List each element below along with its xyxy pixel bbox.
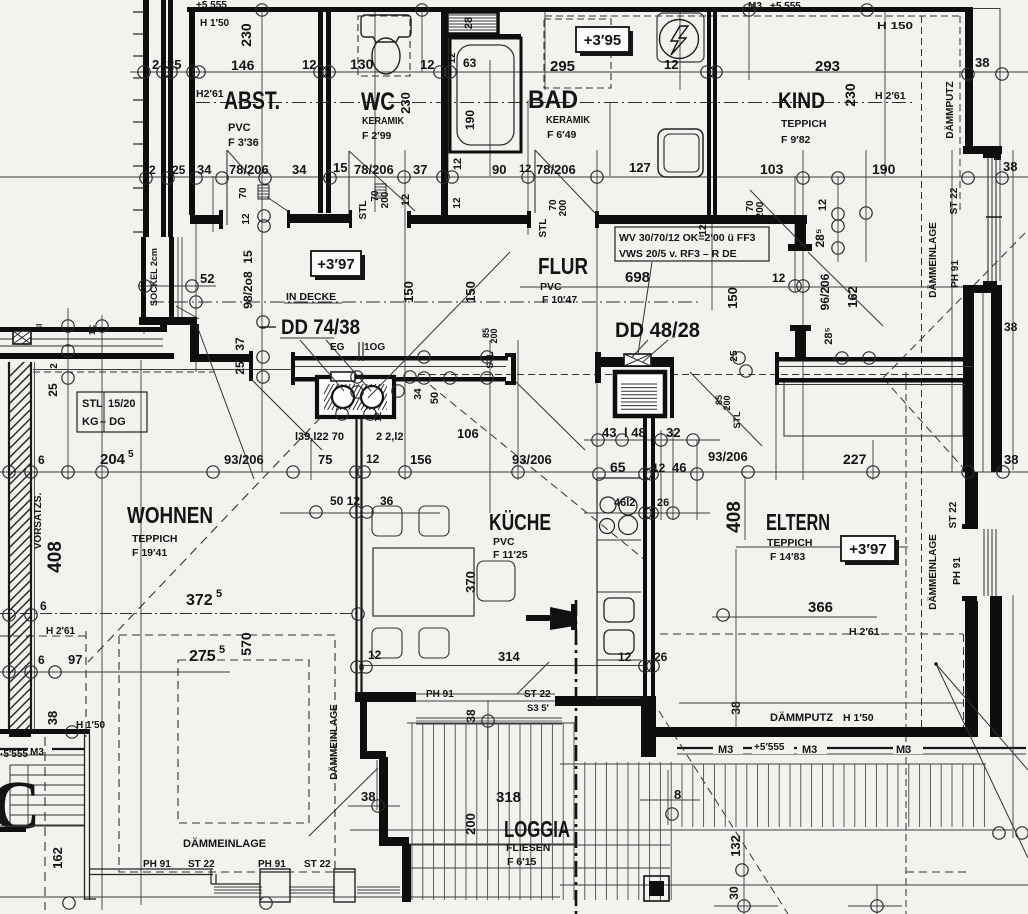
stairs lower edge wall [0,827,26,832]
svg-text:12: 12 [420,57,434,72]
svg-text:F 2′99: F 2′99 [362,130,392,142]
dd48 duct hatch [621,384,657,409]
svg-text:2 2,l2: 2 2,l2 [376,431,404,443]
flur 698 dim line y287 [520,286,963,288]
corridor north stub left [190,215,220,224]
svg-text:WV 30/70/12 OK=2′00 ü FF3: WV 30/70/12 OK=2′00 ü FF3 [619,232,756,244]
corridor north wall wc piece [287,214,352,223]
svg-text:ST 22: ST 22 [304,859,331,870]
svg-text:H 1′50: H 1′50 [843,712,874,724]
svg-text:26: 26 [657,497,669,509]
svg-text:DÄMMEINLAGE: DÄMMEINLAGE [183,837,266,850]
stairs bottom-left [10,765,84,825]
kueche dim line y665 [362,665,643,667]
svg-text:698: 698 [625,269,650,286]
svg-text:200: 200 [558,199,569,216]
svg-text:96/206: 96/206 [818,273,832,310]
svg-text:295: 295 [550,58,575,75]
bad toilet [658,129,703,177]
svg-text:200: 200 [722,395,732,410]
svg-text:+3′95: +3′95 [584,32,621,49]
left outer wall line1 [143,0,149,237]
svg-text:5: 5 [219,644,225,656]
level marker +3&#8242;95 [580,31,633,56]
wc-bath partition [441,12,448,215]
svg-text:VORSATZS.: VORSATZS. [33,493,44,550]
svg-text:12: 12 [772,271,786,285]
loggia top line y765 [560,763,986,765]
dashed wc fixture box [358,16,410,76]
kueche dim line y513 [280,512,440,514]
svg-text:12: 12 [664,57,678,72]
svg-text:STL: STL [732,411,742,429]
svg-text:38: 38 [975,55,989,70]
svg-text:127: 127 [629,160,651,175]
electrical symbol circle [660,20,699,59]
window pillar south a [260,869,290,902]
eltern north wall top face [777,357,973,362]
svg-text:STL: STL [358,201,369,220]
svg-text:PH 91: PH 91 [426,689,454,700]
svg-text:M3: M3 [718,744,733,756]
svg-text:1OG: 1OG [364,342,385,353]
kind door swing leader 96-206 [750,190,806,248]
duct dim line y440 [584,439,720,441]
dashed eltern SE corner vertical [963,634,965,734]
duct74 damper box [331,372,355,381]
svg-text:93/206: 93/206 [512,452,552,467]
svg-text:l39,l22 70: l39,l22 70 [295,431,344,443]
left outer wall line3 [168,0,173,237]
svg-text:106: 106 [457,426,479,441]
svg-text:25: 25 [46,383,60,397]
svg-text:12: 12 [452,158,464,170]
svg-text:156: 156 [410,452,432,467]
dashed bad level box [544,19,611,88]
svg-text:5: 5 [128,449,134,460]
flur south wall west piece top face [293,356,508,361]
kueche counter outline [596,478,598,700]
svg-text:H 2′61: H 2′61 [875,90,906,102]
window sill bottom wohnen left [214,886,262,888]
svg-text:PVC: PVC [493,536,515,548]
kueche south step pillar [641,696,656,757]
vertical extension lines [67,308,69,480]
dashed diagonal kueche a [430,385,645,560]
svg-text:DÄMMPUTZ: DÄMMPUTZ [770,711,833,724]
right wall pair left leaf [963,291,974,472]
leader wv box to damper [638,262,652,354]
chairs [372,506,402,536]
window right lower glazing [983,529,985,596]
kind south wall [597,215,807,224]
svg-text:SOCKEL 2cm: SOCKEL 2cm [149,248,159,306]
svg-text:KG: KG [82,416,99,428]
outer wall top [187,7,972,12]
svg-text:+5 555: +5 555 [196,0,227,11]
flur floor line y369 left segment [33,369,293,371]
svg-text:230: 230 [398,92,413,114]
svg-text:38: 38 [464,709,478,723]
kueche west wall b [651,418,655,700]
svg-text:S3 5′: S3 5′ [527,703,550,714]
svg-text:LOGGIA: LOGGIA [504,816,570,842]
svg-text:+3′97: +3′97 [317,256,354,273]
svg-text:WC: WC [361,88,395,116]
dashed diagonal eltern up [883,232,1026,378]
svg-text:150: 150 [401,281,416,303]
bath tub inner [457,45,514,145]
svg-text:34: 34 [197,162,212,177]
dashed diagonal eltern down [883,378,965,470]
svg-text:PH 91: PH 91 [258,859,286,870]
svg-text:TEPPICH: TEPPICH [132,533,178,545]
right wall step1 [963,146,1002,154]
flur door jamb x508 bracket [505,353,516,357]
abst-wc partition b [326,12,331,213]
svg-text:VWS 20/5 v. RF3 – R DE: VWS 20/5 v. RF3 – R DE [619,248,737,260]
svg-text:200: 200 [463,813,478,835]
svg-text:70: 70 [238,187,249,199]
svg-text:12: 12 [447,52,458,64]
svg-text:DD 74/38: DD 74/38 [281,316,360,339]
svg-text:H 1′50: H 1′50 [200,18,230,29]
svg-text:98/2o8: 98/2o8 [241,271,255,309]
sockel cap [139,317,197,325]
wohnen dim line y672 [0,671,230,673]
svg-text:F 14′83: F 14′83 [770,551,805,563]
door swing kind [808,252,883,326]
line under IN DECKE [284,302,342,304]
svg-text:200: 200 [489,328,499,343]
svg-text:46l2: 46l2 [614,497,635,509]
wohnen dim line y614 dash-dot [0,613,360,615]
svg-text:93/206: 93/206 [708,449,748,464]
svg-text:DÄMMEINLAGE: DÄMMEINLAGE [327,704,340,780]
svg-text:2: 2 [149,163,156,177]
level marker +3&#8242;97 [845,540,899,565]
svg-text:150: 150 [725,287,740,309]
svg-text:12: 12 [618,650,632,664]
svg-text:12: 12 [519,163,531,175]
eltern vertical extension x736 [735,549,737,727]
svg-text:DÄMMEINLAGE: DÄMMEINLAGE [926,534,939,610]
svg-text:12: 12 [366,452,380,466]
dashed vertical x45 bottom-left [44,737,46,910]
loggia west stepped wall [360,700,367,755]
svg-text:C: C [0,768,41,845]
svg-text:ABST.: ABST. [224,87,280,115]
roof overhang top right [972,8,1000,10]
wohnen-kueche partition b [360,412,362,692]
loggia column bottom [644,876,669,901]
svg-text:408: 408 [724,501,745,533]
dimension line 52 y285 [138,285,216,287]
flur-wohnen left assembly [0,327,167,332]
svg-text:KERAMIK: KERAMIK [546,114,590,126]
svg-text:BAD: BAD [528,86,578,114]
svg-text:FLUR: FLUR [538,253,588,279]
svg-text:130: 130 [350,56,374,72]
svg-text:FLIESEN: FLIESEN [506,842,550,854]
kueche west wall a [643,418,647,700]
svg-text:162: 162 [845,286,860,308]
svg-text:38: 38 [1003,159,1017,174]
left step walls to flur door [190,324,199,362]
dash-dot section line upper rooms y102 [196,102,915,104]
svg-text:KIND: KIND [778,88,825,113]
line x378 chain y806 [348,805,400,807]
svg-text:230: 230 [238,23,254,47]
flur west door swing diag short [176,306,199,319]
bath tub outer [450,38,521,152]
svg-text:H 2′61: H 2′61 [849,626,880,638]
level marker +3&#8242;97 [315,255,365,280]
svg-text:+5′555: +5′555 [754,742,785,753]
svg-text:ST 22: ST 22 [524,689,551,700]
hatched pillar left [13,331,31,344]
svg-text:34: 34 [413,388,424,400]
abst door leaf [226,150,228,225]
svg-text:190: 190 [463,110,477,130]
leaders dd48 label to damper [632,340,648,357]
flur west piece left jamb [291,352,295,385]
eltern north wall jamb [775,352,779,385]
kueche south wall west segment [355,692,416,702]
eltern north wall bottom face [777,378,973,383]
dash-dot section line flur y302 [150,301,700,303]
leader long diagonal flur [368,252,510,398]
electrical enclosure [657,13,704,62]
svg-text:F 11′25: F 11′25 [493,549,528,561]
left wall ticks [133,11,145,13]
left outer wall line2 [161,0,166,237]
svg-text:12: 12 [400,194,412,206]
svg-text:6: 6 [40,599,47,613]
svg-text:H 150: H 150 [877,21,914,32]
svg-text:M3: M3 [30,747,44,758]
svg-text:H2′61: H2′61 [196,88,224,100]
insulation dashed right x921 [921,16,923,737]
kueche sink bowls [604,598,634,622]
dashed eltern H261 line [660,633,963,635]
svg-text:F 19′41: F 19′41 [132,547,167,559]
svg-text:ELTERN: ELTERN [766,509,830,535]
svg-text:200: 200 [380,191,391,208]
dashed wohnen H261 line [0,635,86,637]
svg-text:H 2′61: H 2′61 [46,626,76,637]
right wall step2 [963,285,1002,293]
west wall hatch strip (masonry) [8,354,35,756]
svg-text:204: 204 [100,451,126,468]
svg-text:– DG: – DG [100,416,126,428]
svg-text:H 1′50: H 1′50 [76,720,106,731]
tub wall stub [448,34,521,38]
lintel symbol abst door [258,185,269,199]
svg-text:314: 314 [498,649,520,664]
svg-text:275: 275 [189,648,216,665]
svg-text:15/20: 15/20 [108,398,136,410]
svg-text:IN DECKE: IN DECKE [286,291,336,303]
svg-text:DÄMMEINLAGE: DÄMMEINLAGE [926,222,939,298]
svg-text:32: 32 [666,425,680,440]
svg-text:DD 48/28: DD 48/28 [615,319,700,342]
svg-text:PVC: PVC [228,122,251,134]
eltern west wall stub below kind door [795,327,806,357]
loggia opening sill lines [416,693,555,695]
kueche south wall east segment [555,696,643,706]
svg-text:12: 12 [817,199,829,211]
svg-text:STL: STL [538,219,549,238]
svg-text:6: 6 [38,653,45,667]
svg-text:38: 38 [1004,320,1018,334]
svg-text:+5 555: +5 555 [770,1,801,12]
sill lines eltern south y748 M3 row [677,747,1026,749]
svg-text:26: 26 [654,650,668,664]
duct74 fans [332,386,354,408]
svg-text:12: 12 [241,213,252,225]
svg-text:78/206: 78/206 [536,162,576,177]
dd48 outer right wall [670,357,674,418]
svg-text:28⁵: 28⁵ [823,327,835,344]
wohnen sw wall thin pair [84,734,86,900]
eltern level line y547 [736,546,908,548]
window pillar south b [334,869,355,902]
svg-text:30: 30 [727,886,741,900]
svg-text:STL: STL [485,351,495,369]
leader dd74 label underline [280,337,334,339]
section arrow [550,607,574,630]
window sill bottom wohnen far right [357,886,400,888]
svg-text:8: 8 [674,787,681,802]
bad-kind partition a [707,12,711,217]
svg-text:5: 5 [216,588,222,600]
line y800 at 8 [640,799,700,801]
bottom chain y905 [714,905,778,907]
svg-text:78/206: 78/206 [229,162,269,177]
stl table box [77,392,147,432]
svg-text:PVC: PVC [540,281,562,293]
svg-text:37: 37 [233,337,247,351]
wohnen south wall thin pair [90,868,213,870]
insulation dashed x906 lower [905,372,907,914]
svg-text:F 3′36: F 3′36 [228,137,259,149]
svg-text:52: 52 [200,271,214,286]
svg-text:PH 91: PH 91 [952,557,963,585]
window divider tick [986,216,1002,218]
svg-text:318: 318 [496,789,521,806]
leader lines bottom right [936,664,1028,770]
door swing flur wohnen door [250,378,322,450]
svg-text:408: 408 [45,541,66,573]
abst west wall [189,12,195,215]
svg-text:TEPPICH: TEPPICH [767,537,813,549]
dashed diagonal loggia right [659,711,788,914]
wardrobe rect eltern [784,382,963,436]
svg-text:F 9′82: F 9′82 [781,134,811,146]
wc door leaf [348,151,350,214]
svg-text:190: 190 [872,161,896,177]
abst-wc partition a [318,12,323,213]
door swing bad leaf [534,150,536,213]
svg-text:146: 146 [231,57,255,73]
kueche loggia door track y718-724 [416,717,562,719]
dashed flur wall insulation y374 [418,374,970,376]
svg-text:293: 293 [815,58,840,75]
door swing kueche loggia door [517,662,549,694]
dimension chain line y176 [0,176,1028,178]
svg-text:2: 2 [49,363,60,369]
svg-text:F 6′15: F 6′15 [507,856,537,868]
svg-text:STL: STL [82,398,103,410]
wohnen-kueche partition a [355,412,357,692]
dimension chain line y72 [130,71,1028,73]
dashed vertical x86 wohnen west [85,631,87,737]
sockel column left [141,237,146,317]
svg-text:25: 25 [233,361,247,375]
dd48 jamb x597 [595,352,601,383]
svg-text:150: 150 [463,281,478,303]
loggia tile hatch [412,723,984,900]
dashed daemmeinlage rect wohnen outer [119,635,335,872]
svg-text:ST 22: ST 22 [188,859,215,870]
lightning bolt [671,26,688,55]
svg-text:230: 230 [842,83,858,107]
svg-text:372: 372 [186,592,213,609]
eg-1og divider ticks on wall [358,342,360,361]
svg-text:F 10′47: F 10′47 [542,294,577,306]
window caps right lower [962,524,977,529]
eltern north wall thin lines [777,366,973,368]
window right upper glazing [987,158,989,281]
svg-text:103: 103 [760,161,784,177]
bottom line y885 [560,884,1028,886]
wohnen sw corner wall [0,729,90,734]
svg-text:90: 90 [492,162,506,177]
svg-text:28: 28 [463,17,475,29]
svg-text:M3: M3 [802,744,817,756]
right wall upper [965,7,973,148]
flur south wall dd48 band [600,357,674,367]
svg-text:93/206: 93/206 [224,452,264,467]
vent damper box with X [624,354,651,366]
leader dd74 to fans [300,340,344,391]
svg-text:PH 91: PH 91 [143,859,171,870]
window caps right upper [983,153,997,158]
eltern south wall [656,727,971,737]
duct74 shell [317,377,394,417]
svg-text:65: 65 [610,459,626,475]
lintel symbol wc door [375,184,386,198]
heavy dash-dot section line x576 [575,600,578,914]
svg-text:46: 46 [672,460,686,475]
wc toilet tank [361,15,411,42]
svg-text:570: 570 [238,632,254,656]
dimension chain line y472 [0,471,1028,473]
eltern inner wall face line [679,702,963,704]
dashed diagonal wohnen [88,374,362,662]
svg-text:38: 38 [1004,452,1018,467]
wc toilet bowl [372,38,400,74]
window sill bottom wohnen right [289,886,335,888]
dashed y872 bottom right [906,871,970,873]
right wall eltern lower [965,601,978,737]
svg-text:132: 132 [728,835,743,857]
insulation dashed top wall [545,15,962,17]
right wall eltern upper [965,472,978,529]
loggia step lines bottom [379,844,670,846]
door swing eltern door [690,372,762,446]
